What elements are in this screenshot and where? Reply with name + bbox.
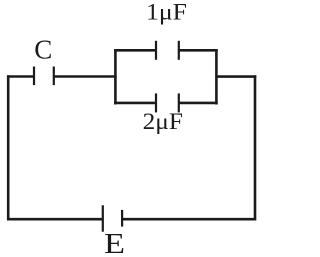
svg-text:C: C xyxy=(34,35,52,65)
svg-text:1μF: 1μF xyxy=(146,0,187,25)
svg-text:2μF: 2μF xyxy=(143,109,183,135)
svg-text:E: E xyxy=(104,228,125,257)
